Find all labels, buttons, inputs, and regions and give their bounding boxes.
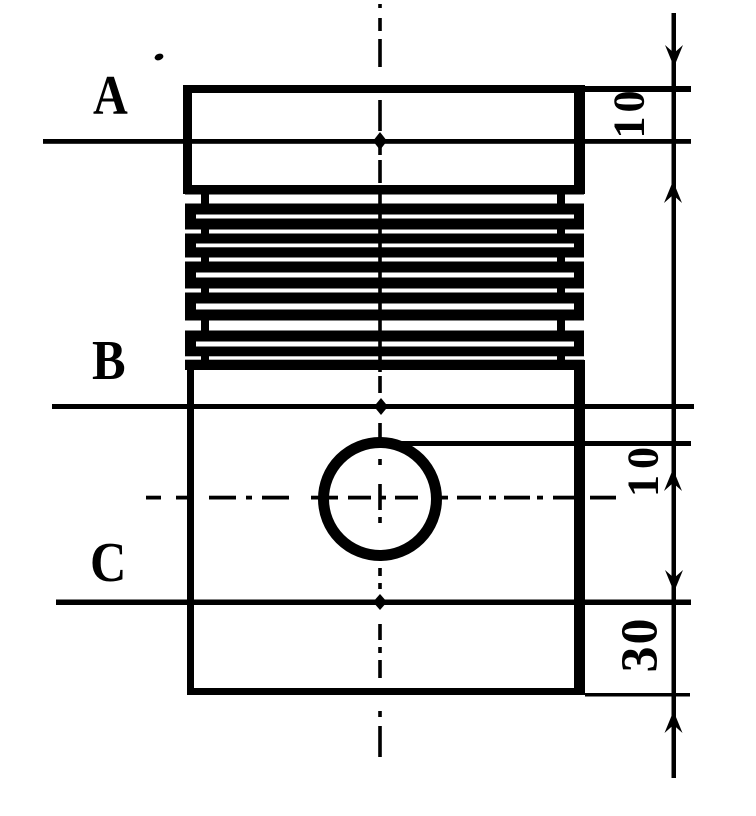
pin hole top line (396, 441, 691, 446)
groove gap r5 (183, 258, 201, 262)
groove gap r7 (183, 289, 201, 293)
arrowhead up at pin line (664, 469, 682, 491)
groove gap r1 (183, 195, 201, 204)
arrowhead down above C line (665, 570, 683, 592)
groove gap r3 (183, 230, 201, 234)
node dot at B line (374, 398, 388, 415)
groove gap r9 (183, 321, 201, 331)
ink speck (154, 52, 165, 61)
node dot at A line (373, 132, 387, 150)
groove gap r11 (183, 356, 201, 359)
svg-text:C: C (90, 532, 126, 594)
piston body outline (187, 360, 585, 695)
section line B (52, 404, 694, 409)
land gap r4 (196, 244, 574, 248)
section line A (43, 139, 691, 144)
arrowhead down at top (665, 45, 683, 67)
land gap r2 (196, 215, 574, 219)
horizontal dash-dot centerline of pin hole (146, 496, 616, 500)
svg-text:10: 10 (605, 87, 654, 139)
body bottom extension line (585, 693, 690, 697)
dimension line (right) (672, 13, 677, 778)
ring belt base (185, 194, 584, 370)
svg-text:A: A (93, 65, 128, 127)
land gap r10 (196, 342, 574, 347)
arrowhead up below crown (664, 181, 682, 203)
node dot at C line (373, 594, 387, 610)
svg-text:B: B (92, 330, 126, 392)
arrowhead up at bottom (665, 711, 683, 733)
vertical dash-dot centerline (378, 4, 382, 757)
section line C (56, 600, 691, 606)
crown top extension line (585, 86, 691, 92)
piston crown outline (183, 85, 585, 194)
land gap r6 (196, 273, 574, 278)
land gap r8 (196, 304, 574, 310)
pin hole circle (324, 443, 437, 556)
svg-text:30: 30 (612, 617, 669, 673)
svg-text:10: 10 (619, 441, 668, 497)
